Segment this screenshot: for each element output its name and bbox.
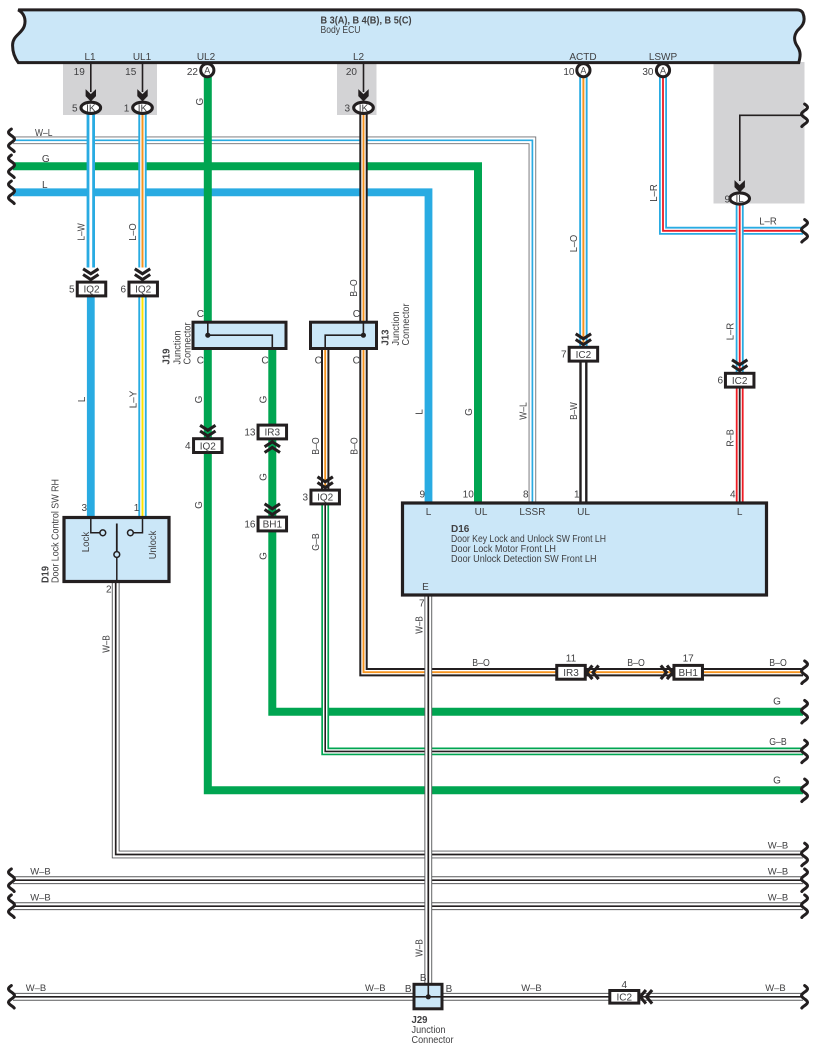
wire W-L horizontal to LSSR (13, 140, 532, 503)
svg-text:W–B: W–B (30, 893, 51, 904)
arrow chevron above 3 IQ2 (318, 477, 333, 488)
svg-text:17: 17 (683, 654, 695, 665)
wire G from J19 to 4 IQ2 (204, 348, 212, 439)
svg-text:Unlock: Unlock (148, 530, 159, 559)
svg-text:15: 15 (125, 67, 137, 78)
break mark break W-B right3 (802, 895, 808, 918)
svg-text:22: 22 (187, 67, 199, 78)
svg-text:3: 3 (344, 103, 350, 114)
arrow chevron above 7 IC2 (576, 334, 591, 345)
svg-text:3: 3 (302, 493, 308, 504)
svg-text:UL: UL (475, 507, 488, 518)
svg-text:IL: IL (736, 194, 745, 205)
svg-text:BH1: BH1 (263, 520, 283, 531)
svg-text:E: E (422, 582, 429, 593)
connector A circle LSWP pin 30 (642, 64, 669, 78)
svg-text:L: L (77, 396, 88, 402)
svg-text:UL2: UL2 (197, 52, 216, 63)
wire W-B bottom horizontal (13, 993, 803, 1001)
connector 4 IQ2 (185, 439, 222, 453)
break mark break W-B left3 (9, 895, 15, 918)
break mark break W-B right1 (802, 843, 808, 866)
wire G from 13 IR3 to 16 BH1 (268, 439, 276, 518)
svg-text:B–O: B–O (349, 437, 360, 455)
svg-text:B–O: B–O (627, 658, 645, 669)
wire L from 5 IQ2 to D19 pin 3 (87, 296, 95, 518)
shield box middle (337, 62, 377, 115)
svg-text:1: 1 (124, 103, 130, 114)
connector 3 IK (344, 102, 373, 114)
wire G from 4 IQ2 down and right (208, 452, 803, 790)
svg-text:L–O: L–O (569, 235, 580, 253)
svg-text:B–O: B–O (311, 437, 322, 455)
wire lead L1 to IK (90, 63, 92, 92)
svg-text:IK: IK (86, 103, 96, 114)
arrow arrow into 5 IK (86, 89, 96, 101)
svg-text:C: C (197, 309, 204, 320)
connector 17 BH1 (674, 665, 703, 679)
svg-text:L: L (42, 180, 48, 191)
svg-text:5: 5 (69, 285, 75, 296)
wire B-O from 3 IK to J13 (359, 114, 367, 323)
break mark break W-B left2 (9, 869, 15, 892)
break mark break G right2 (802, 779, 808, 802)
svg-text:G: G (42, 154, 50, 165)
wire G horizontal to pin 10 (13, 166, 478, 503)
junction connector J19 (193, 322, 286, 348)
svg-text:W–B: W–B (30, 867, 51, 878)
break mark break black right (802, 104, 808, 127)
svg-text:BH1: BH1 (678, 668, 698, 679)
wire W-B from D16 pin 7 to J29 (424, 594, 432, 985)
arrow arrow into 9 IL (735, 180, 745, 192)
svg-text:4: 4 (730, 490, 736, 501)
svg-text:IK: IK (138, 103, 148, 114)
wire B-W from 7 IC2 to D16 pin 1 (579, 361, 587, 503)
wire W-B horizontal 2 (13, 876, 803, 884)
svg-text:IQ2: IQ2 (317, 493, 334, 504)
shield box right (714, 62, 805, 204)
break mark break W-B bottom right (802, 986, 808, 1009)
svg-text:G: G (258, 552, 269, 560)
svg-text:L: L (737, 507, 743, 518)
svg-text:B–O: B–O (472, 658, 490, 669)
svg-text:G: G (773, 697, 781, 708)
svg-text:IC2: IC2 (576, 350, 592, 361)
connector 6 IC2 (717, 373, 754, 387)
svg-text:L–R: L–R (726, 323, 737, 341)
svg-text:G: G (464, 408, 475, 416)
svg-text:UL1: UL1 (133, 52, 152, 63)
svg-text:4: 4 (622, 980, 628, 991)
junction connector J29 (414, 984, 442, 1009)
svg-text:19: 19 (74, 67, 86, 78)
connector 9 IL (724, 193, 749, 205)
break mark break B-O right (802, 661, 808, 684)
svg-text:W–B: W–B (765, 983, 786, 994)
D19 lock contact (100, 530, 106, 536)
svg-text:W–L: W–L (35, 128, 53, 139)
svg-text:ACTD: ACTD (569, 52, 596, 63)
wire B-O from J13 down and right (364, 348, 804, 672)
connector 7 IC2 (561, 347, 598, 361)
svg-text:C: C (353, 309, 360, 320)
svg-text:IC2: IC2 (732, 376, 748, 387)
svg-text:Connector: Connector (412, 1035, 455, 1046)
break mark break W-B bottom left (9, 986, 15, 1009)
svg-text:13: 13 (244, 428, 256, 439)
wire L horizontal to pin 9 (13, 192, 429, 503)
svg-text:16: 16 (244, 520, 256, 531)
svg-text:W–B: W–B (102, 635, 113, 653)
svg-text:LSSR: LSSR (519, 507, 545, 518)
wire G from UL2 to J19 (204, 77, 212, 323)
arrow chevron right of 4 IC2 (640, 990, 652, 1004)
svg-text:7: 7 (419, 599, 425, 610)
svg-text:3: 3 (81, 503, 87, 514)
wire L-R from 9 IL to 6 IC2 (736, 204, 744, 373)
break mark break L left (9, 181, 15, 204)
arrow chevron above 5 IQ2 (83, 269, 98, 280)
connector 5 IK (72, 102, 101, 114)
connector A circle ACTD pin 10 (563, 64, 590, 78)
svg-text:J19: J19 (161, 348, 172, 364)
svg-text:W–B: W–B (768, 893, 789, 904)
svg-text:LSWP: LSWP (649, 52, 678, 63)
connector 1 IK (124, 102, 153, 114)
wire L-W from 5 IK (87, 114, 95, 268)
svg-text:C: C (353, 356, 360, 367)
wire L-R horizontal from LSWP (663, 77, 803, 231)
ECU Body ECU block (13, 10, 804, 63)
svg-text:7: 7 (561, 350, 567, 361)
break mark break W-B right2 (802, 869, 808, 892)
wire G from 16 BH1 down and right (272, 531, 803, 712)
wire L-Y from 6 IQ2 to D19 pin 1 (138, 296, 146, 518)
svg-text:C: C (315, 356, 322, 367)
wire R-B from 6 IC2 to D16 pin 4 (736, 387, 744, 503)
svg-text:G–B: G–B (769, 737, 787, 748)
svg-text:L2: L2 (353, 52, 365, 63)
svg-text:5: 5 (72, 103, 78, 114)
svg-text:C: C (261, 356, 268, 367)
svg-text:G: G (258, 395, 269, 403)
connector 11 IR3 (557, 665, 586, 679)
svg-text:6: 6 (717, 376, 723, 387)
svg-text:20: 20 (346, 67, 358, 78)
svg-text:W–B: W–B (26, 983, 47, 994)
svg-text:L: L (415, 409, 426, 415)
svg-text:W–B: W–B (365, 983, 386, 994)
svg-text:Door Unlock Detection SW Front: Door Unlock Detection SW Front LH (451, 554, 597, 565)
svg-text:B–O: B–O (349, 279, 360, 297)
junction connector J13 (311, 322, 377, 348)
svg-text:9: 9 (724, 194, 730, 205)
wire W-B horizontal 3 (13, 902, 803, 910)
wire D19 lock lead (91, 518, 100, 533)
svg-text:IQ2: IQ2 (83, 285, 100, 296)
svg-text:9: 9 (419, 490, 425, 501)
svg-text:L–O: L–O (128, 223, 139, 241)
svg-text:IC2: IC2 (617, 993, 633, 1004)
connector 5 IQ2 (69, 282, 106, 296)
svg-text:4: 4 (185, 441, 191, 452)
shield box left (63, 62, 157, 115)
wire black feed to IL (740, 115, 803, 181)
svg-text:1: 1 (134, 503, 140, 514)
arrow chevron above 6 IQ2 (135, 269, 150, 280)
svg-text:L–R: L–R (759, 216, 777, 227)
wire L-O from 1 IK (138, 114, 146, 268)
svg-text:W–B: W–B (414, 616, 425, 634)
break mark break W-L left (9, 129, 15, 152)
svg-text:30: 30 (642, 67, 654, 78)
arrow chevron left of 17 BH1 (661, 666, 673, 680)
break mark break G-B right (802, 740, 808, 763)
svg-text:IQ2: IQ2 (135, 285, 152, 296)
svg-text:G: G (195, 97, 206, 105)
svg-text:IR3: IR3 (265, 428, 281, 439)
svg-text:B: B (420, 973, 427, 984)
connector 6 IQ2 (120, 282, 157, 296)
wire G-B from 3 IQ2 down and right (325, 503, 803, 751)
svg-text:B–W: B–W (569, 402, 580, 420)
break mark break L-R right (802, 220, 808, 243)
svg-text:W–B: W–B (414, 939, 425, 957)
svg-text:1: 1 (574, 490, 580, 501)
svg-text:Door Lock Control SW RH: Door Lock Control SW RH (51, 479, 62, 583)
svg-text:L: L (426, 507, 432, 518)
wire W-B from D19 pin 2 down and right (116, 581, 803, 855)
break mark break G right1 (802, 700, 808, 723)
svg-text:10: 10 (563, 67, 575, 78)
connector 13 IR3 (244, 425, 286, 439)
svg-text:6: 6 (120, 285, 126, 296)
svg-text:G: G (773, 776, 781, 787)
svg-text:W–B: W–B (768, 867, 789, 878)
D19 unlock contact (127, 530, 133, 536)
arrow chevron right of 11 IR3 (587, 666, 599, 680)
svg-text:G: G (194, 395, 205, 403)
wire D19 common lead (116, 558, 118, 582)
svg-text:B–O: B–O (769, 658, 787, 669)
arrow chevron below 13 IR3 up (265, 442, 280, 453)
svg-text:IR3: IR3 (563, 668, 579, 679)
arrow arrow into 3 IK (358, 89, 368, 101)
svg-text:Connector: Connector (401, 303, 412, 346)
svg-text:IK: IK (359, 103, 369, 114)
svg-text:G–B: G–B (311, 533, 322, 551)
arrow arrow into 1 IK (137, 89, 147, 101)
svg-text:8: 8 (523, 490, 529, 501)
arrow chevron above 16 BH1 (265, 504, 280, 515)
connector 3 IQ2 (302, 490, 339, 504)
wire D19 unlock lead (134, 518, 143, 533)
arrow chevron above 6 IC2 (732, 360, 747, 371)
connector 16 BH1 (244, 517, 286, 531)
wire lead UL1 to IK (142, 63, 144, 92)
svg-text:2: 2 (106, 585, 112, 596)
svg-text:A: A (204, 66, 210, 76)
svg-text:C: C (197, 356, 204, 367)
svg-text:W–B: W–B (521, 983, 542, 994)
svg-text:L–W: L–W (76, 223, 87, 241)
svg-text:IQ2: IQ2 (200, 441, 217, 452)
svg-text:B: B (446, 984, 453, 995)
svg-text:UL: UL (577, 507, 590, 518)
svg-text:Connector: Connector (183, 322, 194, 365)
wire D19 lever (116, 524, 118, 552)
svg-text:W–B: W–B (768, 841, 789, 852)
svg-text:G: G (194, 501, 205, 509)
component D16 Door Key Lock and Unlock SW Front LH (403, 503, 767, 595)
svg-text:R–B: R–B (726, 429, 737, 447)
wire B-O from J13 branch to 3 IQ2 (321, 348, 329, 490)
svg-text:10: 10 (463, 490, 475, 501)
svg-text:11: 11 (566, 654, 577, 665)
connector A circle UL2 pin 22 (187, 64, 214, 78)
arrow chevron above 4 IQ2 (200, 425, 215, 436)
wire G from J19 branch to 13 IR3 (268, 348, 276, 425)
svg-text:L1: L1 (84, 52, 96, 63)
break mark break G left (9, 155, 15, 178)
svg-text:Lock: Lock (81, 531, 92, 552)
svg-text:L–R: L–R (649, 184, 660, 202)
wire lead L2 to IK (363, 63, 365, 92)
svg-text:W–L: W–L (518, 402, 529, 420)
svg-text:L–Y: L–Y (129, 390, 140, 408)
component D19 Door Lock Control SW RH (64, 518, 169, 582)
svg-text:G: G (258, 473, 269, 481)
connector 4 IC2 (610, 991, 639, 1004)
svg-text:A: A (580, 66, 586, 76)
svg-text:A: A (660, 66, 666, 76)
svg-text:Body ECU: Body ECU (321, 25, 361, 36)
wire L-O from ACTD to 7 IC2 (579, 77, 587, 347)
D19 lever pivot (114, 552, 120, 558)
svg-text:B: B (405, 984, 412, 995)
